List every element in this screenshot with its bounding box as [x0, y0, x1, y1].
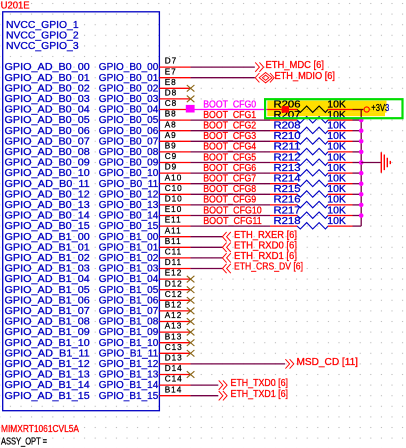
svg-text:GPIO_AD_B1_06: GPIO_AD_B1_06 — [5, 295, 91, 306]
svg-text:GPIO_AD_B1_08: GPIO_AD_B1_08 — [5, 317, 91, 328]
svg-text:GPIO_B0_15: GPIO_B0_15 — [99, 221, 159, 232]
svg-text:R208: R208 — [274, 121, 301, 132]
svg-text:BOOT_CFG0: BOOT_CFG0 — [203, 99, 257, 110]
svg-text:10K: 10K — [327, 152, 346, 163]
svg-text:C13: C13 — [165, 343, 183, 352]
wire MSD_CD from pin D13 — [191, 363, 285, 365]
selection origin marker on R206 — [282, 106, 289, 113]
wire resistor R217 to pull-up bus — [353, 215, 362, 217]
junction on bus at row 12 — [359, 192, 364, 197]
svg-text:GPIO_B0_14: GPIO_B0_14 — [99, 211, 159, 222]
svg-text:D10: D10 — [165, 195, 183, 204]
svg-text:B13: B13 — [165, 332, 183, 341]
resistor R217 10K — [270, 205, 353, 218]
pin A9 name GPIO_AD_B0_07 GPIO_B0_07 — [5, 131, 191, 148]
svg-text:BOOT_CFG4: BOOT_CFG4 — [203, 142, 257, 153]
svg-text:GPIO_AD_B0_14: GPIO_AD_B0_14 — [5, 211, 91, 222]
svg-text:GPIO_B1_07: GPIO_B1_07 — [99, 306, 159, 317]
svg-text:GPIO_AD_B0_13: GPIO_AD_B0_13 — [5, 200, 91, 211]
svg-text:ETH_TXD1 [6]: ETH_TXD1 [6] — [231, 389, 289, 400]
pin C11 name GPIO_AD_B1_02 GPIO_B1_02 — [5, 248, 191, 265]
no-connect X on pin A13 — [187, 329, 195, 336]
no-connect X on pin D12 — [187, 286, 195, 293]
pin A10 name GPIO_AD_B0_11 GPIO_B0_11 — [5, 173, 191, 190]
svg-text:GPIO_B1_01: GPIO_B1_01 — [99, 242, 159, 253]
svg-text:10K: 10K — [327, 216, 346, 227]
pin D8 name GPIO_AD_B0_03 GPIO_B0_03 — [5, 89, 191, 106]
pin D13 name GPIO_AD_B1_12 GPIO_B1_12 — [5, 354, 191, 371]
off-page output port ETH_TXD1 — [219, 389, 288, 401]
pin E8 name GPIO_AD_B0_02 GPIO_B0_02 — [5, 78, 191, 95]
svg-text:ETH_CRS_DV [6]: ETH_CRS_DV [6] — [234, 262, 303, 273]
selection box around R206 row — [265, 99, 402, 118]
svg-text:D7: D7 — [165, 57, 177, 66]
svg-text:ETH_MDC [6]: ETH_MDC [6] — [266, 60, 325, 71]
svg-text:GPIO_B1_03: GPIO_B1_03 — [99, 264, 159, 275]
svg-text:BOOT_CFG9: BOOT_CFG9 — [203, 195, 256, 206]
svg-text:BOOT_CFG11: BOOT_CFG11 — [203, 216, 262, 227]
svg-text:B14: B14 — [165, 385, 183, 394]
svg-text:10K: 10K — [327, 195, 346, 206]
svg-text:BOOT_CFG6: BOOT_CFG6 — [203, 163, 256, 174]
svg-text:R218: R218 — [274, 216, 301, 227]
svg-text:C9: C9 — [165, 152, 177, 161]
svg-text:GPIO_AD_B1_04: GPIO_AD_B1_04 — [5, 274, 91, 285]
svg-text:GPIO_AD_B1_05: GPIO_AD_B1_05 — [5, 285, 91, 296]
no-connect X on pin D8 — [187, 96, 195, 103]
svg-text:GPIO_B0_06: GPIO_B0_06 — [99, 126, 159, 137]
pin B11 name GPIO_AD_B1_01 GPIO_B1_01 — [5, 237, 191, 254]
svg-text:ETH_MDIO [6]: ETH_MDIO [6] — [275, 71, 336, 82]
junction on bus at row 10 — [359, 171, 364, 176]
svg-text:A13: A13 — [165, 322, 183, 331]
pin C8 name GPIO_AD_B0_04 GPIO_B0_04 — [5, 99, 191, 116]
svg-text:GPIO_AD_B0_15: GPIO_AD_B0_15 — [5, 221, 91, 232]
wire BOOT_CFG9 from pin D10 to resistor R216 — [191, 204, 270, 206]
svg-text:GPIO_AD_B1_09: GPIO_AD_B1_09 — [5, 327, 91, 338]
svg-text:MIMXRT1061CVL5A: MIMXRT1061CVL5A — [1, 424, 79, 435]
net label BOOT_CFG1 — [203, 110, 256, 121]
resistor R208 10K — [270, 121, 353, 134]
svg-text:BOOT_CFG8: BOOT_CFG8 — [203, 184, 256, 195]
svg-text:ETH_RXD0 [6]: ETH_RXD0 [6] — [234, 240, 297, 251]
wire ETH_MDC from pin D7 — [191, 66, 255, 68]
svg-text:GPIO_B0_07: GPIO_B0_07 — [99, 137, 159, 148]
wire resistor R213 to pull-up bus — [353, 172, 362, 174]
svg-text:GPIO_AD_B0_09: GPIO_AD_B0_09 — [5, 158, 91, 169]
no-connect X on pin B12 — [187, 308, 195, 315]
svg-text:BOOT_CFG5: BOOT_CFG5 — [203, 152, 256, 163]
svg-text:10K: 10K — [327, 184, 346, 195]
pin E12 name GPIO_AD_B1_04 GPIO_B1_04 — [5, 269, 191, 286]
svg-text:GPIO_B0_13: GPIO_B0_13 — [99, 200, 159, 211]
wire BOOT_CFG1 from pin B8 to resistor R207 — [191, 119, 270, 121]
pin D10 name GPIO_AD_B0_13 GPIO_B0_13 — [5, 195, 191, 212]
svg-text:R215: R215 — [274, 184, 301, 195]
wire BOOT_CFG11 from pin E11 to resistor R218 — [191, 225, 270, 227]
svg-text:E7: E7 — [165, 67, 177, 76]
wire resistor R206 to pull-up bus — [353, 109, 364, 111]
pin name NVCC_GPIO_1 — [6, 20, 79, 31]
junction on bus at row 11 — [359, 181, 364, 186]
svg-text:GPIO_AD_B1_15: GPIO_AD_B1_15 — [5, 391, 91, 402]
junction on bus at row 6 — [359, 128, 364, 133]
svg-text:GPIO_B0_08: GPIO_B0_08 — [99, 147, 159, 158]
highlight band over R206 — [267, 101, 386, 117]
pin B13 name GPIO_AD_B1_10 GPIO_B1_10 — [5, 332, 191, 349]
svg-text:GPIO_B0_04: GPIO_B0_04 — [99, 105, 159, 116]
svg-text:GPIO_AD_B0_00: GPIO_AD_B0_00 — [5, 62, 91, 73]
junction on bus at row 5 — [359, 118, 364, 123]
svg-text:GPIO_AD_B1_11: GPIO_AD_B1_11 — [5, 348, 91, 359]
svg-text:ASSY_OPT =: ASSY_OPT = — [1, 436, 47, 447]
resistor R218 10K — [270, 216, 353, 229]
pin D7 name GPIO_AD_B0_00 GPIO_B0_00 — [5, 57, 191, 73]
svg-text:D12: D12 — [165, 279, 183, 288]
pin E11 name GPIO_AD_B0_15 GPIO_B0_15 — [5, 216, 191, 233]
no-connect X on pin E8 — [187, 85, 195, 92]
pin E10 name GPIO_AD_B0_14 GPIO_B0_14 — [5, 205, 191, 222]
wire resistor R208 to pull-up bus — [353, 130, 362, 132]
svg-text:NVCC_GPIO_3: NVCC_GPIO_3 — [6, 41, 79, 52]
svg-text:10K: 10K — [327, 174, 346, 185]
svg-text:GPIO_AD_B0_10: GPIO_AD_B0_10 — [5, 168, 91, 179]
pin B8 name GPIO_AD_B0_05 GPIO_B0_05 — [5, 110, 191, 127]
off-page output port MSD_CD — [285, 357, 358, 369]
svg-text:GPIO_B1_05: GPIO_B1_05 — [99, 285, 159, 296]
wire BOOT_CFG4 from pin B9 to resistor R211 — [191, 151, 270, 153]
svg-text:E8: E8 — [165, 78, 177, 87]
wire BOOT_CFG0 from pin C8 to resistor R206 — [193, 109, 270, 111]
svg-text:R211: R211 — [274, 142, 301, 153]
resistor R210 10K — [270, 131, 353, 144]
svg-text:NVCC_GPIO_1: NVCC_GPIO_1 — [6, 20, 79, 31]
svg-text:GPIO_B0_10: GPIO_B0_10 — [99, 168, 159, 179]
off-page input port ETH_CRS_DV — [222, 262, 303, 274]
svg-text:GPIO_B1_06: GPIO_B1_06 — [99, 295, 159, 306]
pin A12 name GPIO_AD_B1_08 GPIO_B1_08 — [5, 311, 191, 328]
selected endpoint marker on pin C8 — [186, 105, 195, 113]
svg-text:GPIO_B0_02: GPIO_B0_02 — [99, 84, 159, 95]
svg-text:A11: A11 — [165, 226, 182, 235]
svg-text:10K: 10K — [327, 205, 346, 216]
wire pull-up bus vertical — [360, 110, 362, 227]
wire resistor R215 to pull-up bus — [353, 193, 362, 195]
wire resistor R216 to pull-up bus — [353, 204, 362, 206]
svg-text:D8: D8 — [165, 89, 177, 98]
svg-text:GPIO_AD_B0_08: GPIO_AD_B0_08 — [5, 147, 91, 158]
svg-text:R214: R214 — [274, 174, 302, 185]
svg-text:GPIO_B0_05: GPIO_B0_05 — [99, 115, 159, 126]
net label BOOT_CFG11 — [203, 216, 262, 227]
wire resistor R207 to pull-up bus — [353, 119, 362, 121]
net label BOOT_CFG7 — [203, 174, 256, 185]
svg-text:GPIO_AD_B0_04: GPIO_AD_B0_04 — [5, 105, 91, 116]
net label BOOT_CFG8 — [203, 184, 256, 195]
pin name NVCC_GPIO_2 — [6, 30, 79, 41]
net label BOOT_CFG4 — [203, 142, 257, 153]
svg-text:GPIO_B1_11: GPIO_B1_11 — [99, 348, 159, 359]
wire resistor R212 to pull-up bus — [353, 162, 362, 164]
svg-text:E10: E10 — [165, 205, 183, 214]
pin D14 name GPIO_AD_B1_13 GPIO_B1_13 — [5, 364, 191, 381]
svg-text:C8: C8 — [165, 99, 177, 108]
pin A13 name GPIO_AD_B1_09 GPIO_B1_09 — [5, 322, 191, 339]
svg-text:B11: B11 — [165, 237, 182, 246]
pin name NVCC_GPIO_3 — [6, 41, 79, 52]
resistor R212 10K — [270, 152, 353, 165]
net label BOOT_CFG10 — [203, 205, 262, 216]
pin A8 name GPIO_AD_B0_06 GPIO_B0_06 — [5, 120, 191, 137]
wire resistor R218 to pull-up bus — [353, 225, 362, 227]
svg-text:D9: D9 — [165, 163, 177, 172]
wire BOOT_CFG3 from pin A9 to resistor R210 — [191, 140, 270, 142]
pin B9 name GPIO_AD_B0_08 GPIO_B0_08 — [5, 142, 191, 159]
svg-text:BOOT_CFG7: BOOT_CFG7 — [203, 174, 256, 185]
pin C12 name GPIO_AD_B1_06 GPIO_B1_06 — [5, 290, 191, 307]
pin C9 name GPIO_AD_B0_09 GPIO_B0_09 — [5, 152, 191, 169]
no-connect X on pin E12 — [187, 276, 195, 283]
svg-text:GPIO_AD_B0_01: GPIO_AD_B0_01 — [5, 73, 91, 84]
svg-text:GPIO_AD_B1_12: GPIO_AD_B1_12 — [5, 359, 91, 370]
wire ETH_TXD1 from pin B14 — [191, 395, 219, 397]
net label BOOT_CFG9 — [203, 195, 256, 206]
svg-text:GPIO_B1_09: GPIO_B1_09 — [99, 327, 159, 338]
svg-text:GPIO_AD_B0_06: GPIO_AD_B0_06 — [5, 126, 91, 137]
wire BOOT_CFG6 from pin D9 to resistor R213 — [191, 172, 270, 174]
value label MIMXRT1061CVL5A — [1, 424, 79, 435]
junction on bus at row 14 — [359, 213, 364, 218]
svg-text:C11: C11 — [165, 248, 182, 257]
reference designator U201E — [1, 0, 31, 11]
off-page input port ETH_RXD1 — [222, 251, 297, 263]
pin B12 name GPIO_AD_B1_07 GPIO_B1_07 — [5, 301, 191, 318]
svg-text:B8: B8 — [165, 110, 177, 119]
pin B14 name GPIO_AD_B1_15 GPIO_B1_15 — [5, 385, 191, 402]
resistor R206 10K — [270, 99, 353, 112]
junction on bus at row 8 — [359, 150, 364, 155]
svg-text:D14: D14 — [165, 364, 183, 373]
svg-text:C14: C14 — [165, 375, 183, 384]
svg-text:BOOT_CFG3: BOOT_CFG3 — [203, 131, 256, 142]
wire ETH_MDIO from pin E7 — [191, 77, 255, 79]
svg-text:GPIO_B0_09: GPIO_B0_09 — [99, 158, 159, 169]
wire ETH_RXD0 from pin B11 — [191, 246, 223, 248]
svg-text:MSD_CD [11]: MSD_CD [11] — [297, 357, 359, 368]
off-page input port ETH_RXER — [222, 230, 297, 242]
svg-text:10K: 10K — [327, 142, 346, 153]
svg-text:GPIO_B0_01: GPIO_B0_01 — [99, 73, 159, 84]
wire BOOT_CFG5 from pin C9 to resistor R212 — [191, 162, 270, 164]
svg-text:10K: 10K — [327, 121, 346, 132]
svg-text:BOOT_CFG1: BOOT_CFG1 — [203, 110, 256, 121]
IC U201E symbol body (MIMXRT1061CVL5A) — [3, 12, 160, 411]
junction on bus at row 7 — [359, 139, 364, 144]
svg-text:ETH_RXER [6]: ETH_RXER [6] — [234, 230, 297, 241]
svg-text:GPIO_AD_B1_02: GPIO_AD_B1_02 — [5, 253, 91, 264]
svg-text:A12: A12 — [165, 311, 183, 320]
wire ETH_RXER from pin A11 — [191, 236, 223, 238]
svg-text:GPIO_B0_12: GPIO_B0_12 — [99, 189, 159, 200]
pin D11 name GPIO_AD_B1_03 GPIO_B1_03 — [5, 258, 191, 275]
svg-text:GPIO_B0_00: GPIO_B0_00 — [99, 62, 159, 73]
svg-text:A10: A10 — [165, 173, 183, 182]
svg-text:NVCC_GPIO_2: NVCC_GPIO_2 — [6, 30, 79, 41]
off-page output port ETH_TXD0 — [219, 378, 288, 390]
svg-text:GPIO_AD_B1_03: GPIO_AD_B1_03 — [5, 264, 91, 275]
no-connect X on pin A12 — [187, 318, 195, 325]
wire ETH_RXD1 from pin C11 — [191, 257, 223, 259]
wire BOOT_CFG7 from pin A10 to resistor R214 — [191, 183, 270, 185]
svg-text:E12: E12 — [165, 269, 183, 278]
label ASSY_OPT = — [1, 436, 47, 447]
pin C14 name GPIO_AD_B1_14 GPIO_B1_14 — [5, 375, 191, 392]
svg-text:GPIO_AD_B0_02: GPIO_AD_B0_02 — [5, 84, 91, 95]
svg-text:GPIO_AD_B1_00: GPIO_AD_B1_00 — [5, 232, 91, 243]
svg-text:ETH_TXD0 [6]: ETH_TXD0 [6] — [231, 378, 289, 389]
net label BOOT_CFG2 — [203, 121, 256, 132]
off-page bidirectional port ETH_MDIO — [255, 71, 335, 83]
junction on bus at row 9 — [359, 160, 364, 165]
svg-text:GPIO_B1_12: GPIO_B1_12 — [99, 359, 159, 370]
svg-text:GPIO_B0_03: GPIO_B0_03 — [99, 94, 159, 105]
svg-text:U201E: U201E — [1, 0, 31, 11]
svg-text:GPIO_AD_B1_13: GPIO_AD_B1_13 — [5, 370, 91, 381]
svg-text:GPIO_B1_13: GPIO_B1_13 — [99, 370, 159, 381]
svg-text:GPIO_B1_08: GPIO_B1_08 — [99, 317, 159, 328]
svg-text:GPIO_AD_B1_01: GPIO_AD_B1_01 — [5, 242, 91, 253]
svg-text:C10: C10 — [165, 184, 183, 193]
svg-text:D11: D11 — [165, 258, 182, 267]
pin C10 name GPIO_AD_B0_12 GPIO_B0_12 — [5, 184, 191, 201]
resistor R213 10K — [270, 163, 353, 176]
net label BOOT_CFG5 — [203, 152, 256, 163]
svg-text:R212: R212 — [274, 152, 301, 163]
wire resistor R210 to pull-up bus — [353, 140, 362, 142]
svg-text:R217: R217 — [274, 205, 301, 216]
svg-text:GPIO_AD_B0_05: GPIO_AD_B0_05 — [5, 115, 91, 126]
svg-text:B12: B12 — [165, 301, 183, 310]
pin E7 name GPIO_AD_B0_01 GPIO_B0_01 — [5, 67, 191, 84]
svg-text:10K: 10K — [327, 131, 346, 142]
svg-text:D13: D13 — [165, 354, 183, 363]
wire resistor R214 to pull-up bus — [353, 183, 362, 185]
wire ETH_TXD0 from pin C14 — [191, 384, 219, 386]
svg-text:R216: R216 — [274, 195, 301, 206]
off-page input port ETH_RXD0 — [222, 240, 297, 252]
net label BOOT_CFG0 — [203, 99, 257, 110]
svg-text:R213: R213 — [274, 163, 301, 174]
svg-text:GPIO_AD_B0_07: GPIO_AD_B0_07 — [5, 137, 91, 148]
svg-text:A9: A9 — [165, 131, 177, 140]
wire bus to ground — [361, 162, 381, 164]
svg-text:GPIO_AD_B0_11: GPIO_AD_B0_11 — [5, 179, 91, 190]
svg-text:GPIO_AD_B0_12: GPIO_AD_B0_12 — [5, 189, 91, 200]
svg-text:BOOT_CFG2: BOOT_CFG2 — [203, 121, 256, 132]
svg-text:GPIO_AD_B1_10: GPIO_AD_B1_10 — [5, 338, 91, 349]
svg-text:GPIO_B1_14: GPIO_B1_14 — [99, 380, 159, 391]
svg-text:E11: E11 — [165, 216, 182, 225]
svg-text:GPIO_B1_04: GPIO_B1_04 — [99, 274, 159, 285]
wire resistor R211 to pull-up bus — [353, 151, 362, 153]
pin D9 name GPIO_AD_B0_10 GPIO_B0_10 — [5, 163, 191, 180]
resistor R207 10K — [270, 110, 353, 123]
resistor R211 10K — [270, 142, 353, 155]
no-connect X on pin C13 — [187, 350, 195, 357]
svg-text:ETH_RXD1 [6]: ETH_RXD1 [6] — [234, 251, 297, 262]
resistor R214 10K — [270, 174, 353, 187]
resistor R215 10K — [270, 184, 353, 197]
svg-text:GPIO_B1_10: GPIO_B1_10 — [99, 338, 159, 349]
pin A11 name GPIO_AD_B1_00 GPIO_B1_00 — [5, 226, 191, 243]
resistor R216 10K — [270, 195, 353, 208]
svg-text:R210: R210 — [274, 131, 302, 142]
ground symbol — [381, 152, 390, 172]
wire ETH_CRS_DV from pin D11 — [191, 268, 223, 270]
junction on bus at row 13 — [359, 203, 364, 208]
svg-text:A8: A8 — [165, 120, 177, 129]
wire BOOT_CFG8 from pin C10 to resistor R215 — [191, 193, 270, 195]
svg-text:BOOT_CFG10: BOOT_CFG10 — [203, 205, 262, 216]
no-connect X on pin B13 — [187, 339, 195, 346]
no-connect X on pin D14 — [187, 371, 195, 378]
svg-text:GPIO_AD_B1_07: GPIO_AD_B1_07 — [5, 306, 91, 317]
off-page output port ETH_MDC — [255, 60, 324, 72]
power symbol +3V3 — [364, 103, 389, 114]
svg-text:GPIO_B1_02: GPIO_B1_02 — [99, 253, 159, 264]
svg-text:GPIO_B1_15: GPIO_B1_15 — [99, 391, 159, 402]
pin D12 name GPIO_AD_B1_05 GPIO_B1_05 — [5, 279, 191, 296]
net label BOOT_CFG3 — [203, 131, 256, 142]
wire BOOT_CFG2 from pin A8 to resistor R208 — [191, 130, 270, 132]
net label BOOT_CFG6 — [203, 163, 256, 174]
svg-text:GPIO_AD_B1_14: GPIO_AD_B1_14 — [5, 380, 91, 391]
svg-text:GPIO_AD_B0_03: GPIO_AD_B0_03 — [5, 94, 91, 105]
no-connect X on pin C12 — [187, 297, 195, 304]
wire BOOT_CFG10 from pin E10 to resistor R217 — [191, 215, 270, 217]
svg-text:10K: 10K — [327, 163, 346, 174]
pin C13 name GPIO_AD_B1_11 GPIO_B1_11 — [5, 343, 191, 360]
svg-text:B9: B9 — [165, 142, 177, 151]
svg-text:GPIO_B1_00: GPIO_B1_00 — [99, 232, 159, 243]
svg-text:C12: C12 — [165, 290, 183, 299]
svg-text:GPIO_B0_11: GPIO_B0_11 — [99, 179, 159, 190]
